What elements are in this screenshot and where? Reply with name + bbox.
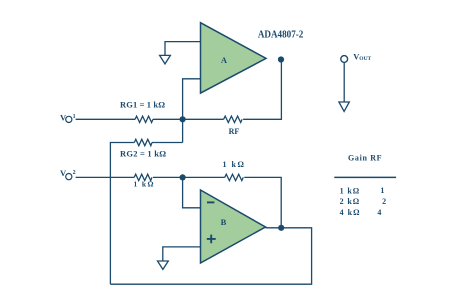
terminal V1 bbox=[60, 112, 76, 122]
svg-text:RG2 = 1 kΩ: RG2 = 1 kΩ bbox=[120, 149, 166, 159]
svg-text:2: 2 bbox=[382, 197, 386, 206]
resistor RG1 bbox=[135, 116, 153, 122]
resistor RF bbox=[224, 116, 243, 122]
wire to junction B bbox=[153, 176, 225, 178]
svg-text:B: B bbox=[221, 217, 227, 227]
svg-text:1: 1 bbox=[380, 186, 384, 195]
wire V2 input line bbox=[76, 176, 135, 178]
terminal V2 bbox=[60, 168, 76, 180]
node A output dot bbox=[278, 56, 284, 62]
svg-text:A: A bbox=[221, 55, 228, 65]
svg-text:2 kΩ: 2 kΩ bbox=[340, 197, 360, 206]
wire B output loop bbox=[110, 228, 311, 284]
svg-text:1: 1 bbox=[73, 114, 76, 120]
node junction V2/R4/B- bbox=[180, 174, 186, 180]
table rule bbox=[334, 176, 396, 178]
resistor R4 1kOhm feedback B bbox=[225, 174, 244, 180]
op-amp U1A bbox=[201, 23, 267, 93]
svg-text:RG1 = 1 kΩ: RG1 = 1 kΩ bbox=[120, 99, 165, 109]
svg-text:Gain RF: Gain RF bbox=[348, 153, 382, 162]
wire junction B to inverting input bbox=[183, 177, 201, 207]
wire B non-inverting input bbox=[163, 247, 201, 261]
wire RG2 branch bbox=[110, 143, 182, 285]
svg-text:1 kΩ: 1 kΩ bbox=[134, 180, 154, 189]
svg-text:OUT: OUT bbox=[359, 56, 371, 62]
node junction RG1/RF/RG2 bbox=[180, 116, 186, 122]
terminal VOUT bbox=[339, 52, 372, 112]
op-amp U1B bbox=[201, 190, 266, 263]
resistor R3 1kOhm bbox=[134, 174, 152, 180]
wire V1 input line bbox=[76, 118, 136, 120]
svg-text:ADA4807-2: ADA4807-2 bbox=[258, 29, 304, 40]
wire RG1 to junction bbox=[153, 118, 224, 120]
svg-text:2: 2 bbox=[73, 170, 76, 176]
svg-text:1 kΩ: 1 kΩ bbox=[222, 160, 244, 169]
svg-text:4 kΩ: 4 kΩ bbox=[340, 208, 360, 217]
wire RF to A feedback vertical bbox=[243, 60, 281, 120]
ground GND1 (op-amp A non-inverting input) bbox=[160, 42, 201, 64]
svg-text:RF: RF bbox=[229, 127, 240, 136]
wire B feedback vertical bbox=[244, 177, 281, 227]
svg-text:1 kΩ: 1 kΩ bbox=[340, 186, 360, 195]
node B output dot bbox=[278, 225, 284, 231]
ground GND2 (op-amp B non-inverting input) bbox=[158, 261, 169, 269]
svg-text:4: 4 bbox=[377, 208, 381, 217]
resistor RG2 bbox=[134, 139, 152, 145]
wire A inverting input bbox=[183, 79, 201, 143]
